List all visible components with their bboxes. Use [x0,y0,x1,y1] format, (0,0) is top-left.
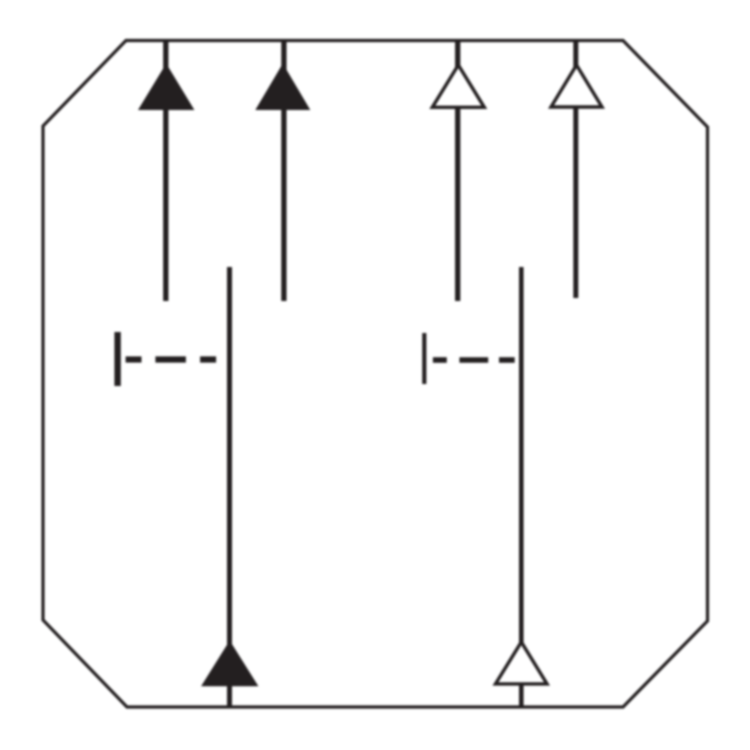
wire: left vertical channel line [227,267,232,707]
wire: right vertical channel line (upper segment) [519,267,524,644]
wire: right vertical channel line (lower segment) [519,686,524,708]
gate G1 dashed control line [126,356,217,362]
arrow A4 open arrowhead (up) [551,65,602,107]
gate G2 tick bar (right) [422,333,426,384]
arrow A3 open arrowhead (up) [432,65,484,107]
enclosure outline (octagon) [43,41,708,708]
wire: lower stem of arrow A4 [573,108,578,298]
arrow A6 open arrowhead (up, bottom right) [496,642,548,684]
wire: lower stem of arrow A3 [455,109,460,302]
wire: stem of arrow A1 [163,41,168,302]
gate G1 tick bar (left) [114,332,120,386]
wire: top stub of arrow A3 [455,41,460,68]
arrow A2 solid arrowhead (up) [255,64,310,111]
wire: top stub of arrow A4 [573,41,578,68]
arrow A5 solid arrowhead (up, bottom left) [201,641,258,687]
wire: stem of arrow A2 [281,41,286,302]
gate G2 dashed control line [433,357,515,363]
arrow A1 solid arrowhead (up) [138,64,194,111]
